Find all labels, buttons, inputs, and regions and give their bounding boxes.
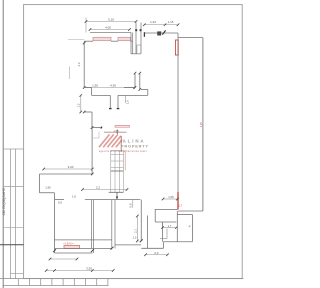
svg-text:1,0: 1,0 [133,236,137,240]
stray line to left [68,39,84,41]
dim y=254.75 [146,254,168,256]
svg-text:2,0: 2,0 [77,62,81,66]
svg-text:1,6: 1,6 [72,195,76,199]
logo right dark edge [120,136,122,152]
corner clusters [53,249,56,252]
stair landing line [111,170,124,172]
band bottom [55,248,112,250]
left strip columns [11,149,16,279]
svg-text:1,25: 1,25 [199,122,203,128]
svg-text:3,55: 3,55 [86,267,92,271]
bottom scale strip [0,278,244,280]
left wall [83,41,85,87]
piers [157,31,161,35]
svg-text:3,20: 3,20 [68,165,74,169]
dim C [144,24,178,26]
window W2 [118,37,131,40]
svg-text:1,7: 1,7 [168,224,172,228]
svg-text:1,55: 1,55 [92,84,98,88]
top dim oblique ticks [85,20,180,31]
drawing border frame [24,5,243,279]
red stair edge [124,150,126,170]
dim y=87.5 ticks [83,86,86,89]
svg-text:1,0: 1,0 [126,100,130,104]
svg-text:2,0: 2,0 [154,251,159,255]
stair bottom [109,191,124,193]
dim B [90,29,130,31]
outer step [40,192,55,194]
ticks tops [134,72,137,75]
wall x=141.25 [140,200,142,241]
inner wall x=178 [177,33,179,209]
dims below bedroom [50,258,77,260]
wall y=33 [144,32,178,34]
corner dark at 144 [143,32,145,37]
svg-text:PROPERTY: PROPERTY [121,144,149,149]
bedroom left wall [54,193,56,253]
bedroom window pink [64,245,80,248]
svg-text:agencia inmobiliaria barcelona: agencia inmobiliaria barcelona spain [99,150,147,153]
dim y=169 [44,168,93,170]
bath top wall left part [155,208,178,210]
dim y=189.5 [83,189,128,191]
bottom step [141,247,163,249]
shower room [155,221,176,223]
svg-text:5,10: 5,10 [108,18,114,22]
logo stripes [99,134,122,147]
svg-text:1,15: 1,15 [168,20,174,24]
logo ridge line [104,131,127,133]
living top-left corner cluster [83,42,86,45]
left dim drop [69,67,71,80]
svg-text:0,8: 0,8 [129,203,133,207]
faint step under watermark [98,132,100,139]
top wall with door [55,199,65,201]
dim v x=132.8 [132,200,134,208]
bath top wall right part [178,210,203,212]
svg-text:0,9: 0,9 [58,200,62,204]
wall step y=112 [84,111,92,113]
dim drop x=125.5 [125,95,127,103]
sheet edge vertical line [2,0,4,288]
dim y=199 [163,198,178,200]
red dim rect [115,126,130,127]
wall y=244.9 [115,244,141,246]
outer sill line [55,252,93,254]
left strip dividers [3,149,24,274]
lobby lower connection [141,89,148,91]
dim v x=137.3 [136,216,138,241]
svg-text:1,05: 1,05 [168,195,174,199]
band bottom wall segments [84,40,132,42]
shaft rect [137,45,141,54]
left dim vertical [80,95,82,112]
svg-text:СВ ЛК(08)АнН0: СВ ЛК(08)АнН0 [2,188,6,215]
svg-text:≈1500≈: ≈1500≈ [63,241,74,245]
dim y=87.5 [84,87,134,89]
svg-text:1,94: 1,94 [150,20,156,24]
living bottom wall [40,173,93,175]
lobby wall verticals mid [134,73,136,87]
step at 87.5 [84,87,91,89]
svg-text:4,39: 4,39 [110,84,116,88]
right outer wall [202,38,204,211]
door jambs [109,95,111,108]
wall y=37.6 right [178,37,203,39]
band top [55,239,112,241]
dark caps [135,29,137,31]
mid wall x=92.1 [91,128,93,174]
red door rect [175,40,178,55]
bedroom right double wall [91,200,93,249]
window W1 [93,37,111,40]
bath left wall [147,216,149,249]
bottom strip cell ticks [18,279,108,286]
band top line [90,32,131,34]
wall y=95.4 with door opening [92,94,111,96]
svg-text:2,1: 2,1 [133,229,137,233]
red wall overlay [177,192,179,209]
left outer wall [39,174,41,193]
dim A [86,21,136,23]
svg-text:2,2: 2,2 [96,185,101,189]
svg-text:1,2: 1,2 [77,103,81,107]
svg-text:1,7: 1,7 [178,203,182,207]
svg-text:4,05: 4,05 [105,26,111,30]
left strip dark divider [0,244,24,246]
logo chimney [116,130,118,135]
stair arrow [116,192,118,199]
wc room [176,211,178,242]
svg-text:1,55: 1,55 [45,186,51,190]
